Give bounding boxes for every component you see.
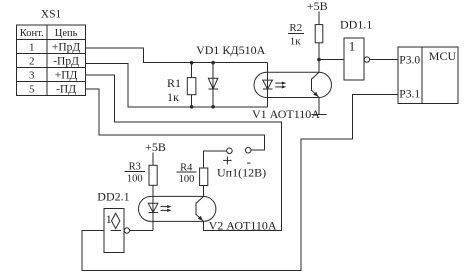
svg-text:VD1 КД510А: VD1 КД510А — [196, 43, 266, 57]
node VD1 top — [211, 61, 215, 65]
wire pin2 -ПрД to bottom rail — [85, 64, 267, 107]
wire DD2.1 output to V2 LED — [130, 230, 153, 232]
svg-text:-ПД: -ПД — [56, 83, 76, 95]
logic gate DD1.1 — [340, 17, 372, 80]
logic gate DD2.1 — [97, 190, 129, 253]
node R2/collector/DD1.1 — [317, 58, 321, 62]
svg-text:R3: R3 — [129, 162, 141, 173]
wire V2 LED cathode down — [152, 221, 154, 230]
wire DD1.1 output to P3.0 — [370, 59, 398, 61]
resistor R1 — [167, 63, 196, 107]
wire pin5 -ПД to minus terminal — [85, 89, 264, 150]
svg-text:1к: 1к — [167, 90, 179, 104]
svg-text:-ПрД: -ПрД — [53, 56, 79, 68]
node VD1 bottom — [211, 105, 215, 109]
svg-text:5: 5 — [29, 83, 35, 95]
svg-text:1: 1 — [29, 42, 35, 54]
svg-text:1к: 1к — [290, 36, 302, 48]
resistor R3 — [125, 162, 158, 197]
wire plus terminal to R4 — [204, 151, 227, 168]
svg-text:R2: R2 — [289, 22, 302, 34]
terminal plus — [227, 148, 233, 154]
svg-text:P3.0: P3.0 — [399, 54, 420, 66]
svg-text:100: 100 — [127, 174, 143, 185]
svg-text:1: 1 — [349, 38, 356, 53]
svg-text:100: 100 — [179, 174, 195, 185]
svg-text:XS1: XS1 — [41, 8, 62, 20]
node R1 bottom — [190, 105, 194, 109]
svg-text:Цепь: Цепь — [55, 28, 78, 39]
svg-text:Конт.: Конт. — [20, 28, 44, 39]
ground — [312, 113, 327, 115]
resistor R2 — [288, 22, 323, 59]
wire +5V to R3 — [152, 153, 154, 166]
diode VD1 — [196, 43, 266, 107]
svg-text:1: 1 — [106, 212, 112, 226]
terminal minus — [245, 147, 251, 153]
optocoupler V2 АОТ110А — [139, 196, 277, 232]
svg-text:+5В: +5В — [145, 140, 166, 154]
wire +5V to R2 — [318, 12, 320, 25]
svg-text:P3.1: P3.1 — [399, 89, 420, 101]
resistor R4 — [177, 162, 208, 196]
svg-text:DD1.1: DD1.1 — [340, 17, 372, 31]
svg-text:R1: R1 — [167, 76, 181, 90]
svg-text:MCU: MCU — [429, 49, 457, 63]
wire V1 collector up to node — [318, 60, 320, 73]
svg-text:+ПД: +ПД — [55, 70, 78, 82]
wire V1 emitter down — [318, 97, 320, 114]
wire P3.1 loop to DD2.1 input — [82, 94, 398, 270]
connector XS1 table — [17, 25, 86, 96]
svg-text:2: 2 — [29, 56, 35, 68]
svg-text:V2 АОТ110А: V2 АОТ110А — [209, 219, 277, 233]
wire node to DD1.1 input — [319, 59, 344, 61]
MCU box — [398, 47, 458, 103]
svg-text:3: 3 — [29, 70, 35, 82]
node R1 top — [190, 61, 194, 65]
optocoupler V1 АОТ110А — [252, 63, 331, 121]
svg-text:DD2.1: DD2.1 — [97, 190, 129, 204]
svg-text:+ПрД: +ПрД — [52, 42, 81, 54]
svg-text:Uп1(12В): Uп1(12В) — [217, 166, 266, 180]
wire pin1 +ПрД to top rail — [85, 48, 267, 63]
svg-text:+5В: +5В — [307, 0, 328, 13]
wire pin3 +ПД to V2 emitter — [85, 75, 281, 231]
svg-text:V1 АОТ110А: V1 АОТ110А — [252, 107, 320, 121]
